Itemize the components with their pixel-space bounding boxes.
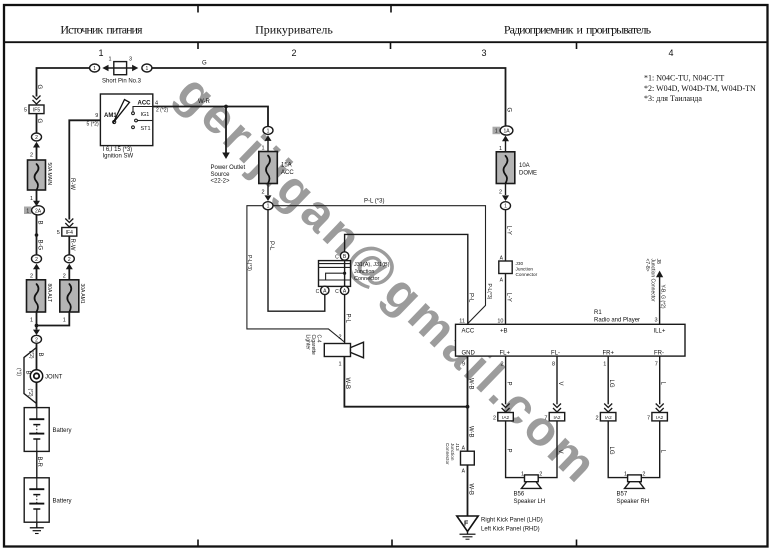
battery ground bbox=[36, 522, 38, 527]
svg-text:LG: LG bbox=[608, 447, 614, 455]
junction node of ALT and AM1 feeds bbox=[35, 324, 39, 328]
fusible link 30A AM1 bbox=[60, 280, 79, 312]
wire oval to 30A AM1 bbox=[68, 268, 70, 280]
svg-text:Left Kick Panel (RHD): Left Kick Panel (RHD) bbox=[481, 527, 540, 533]
connector oval 2 above 30A AM1 bbox=[64, 255, 74, 263]
svg-text:2: 2 bbox=[30, 153, 33, 159]
wire radio GND W-B down bbox=[467, 356, 469, 516]
ignition contact ACC/IG1 bbox=[132, 112, 135, 115]
svg-text:Источник питания: Источник питания bbox=[60, 23, 143, 37]
svg-text:F: F bbox=[464, 521, 469, 528]
svg-text:P: P bbox=[506, 449, 512, 453]
cigarette lighter C4 body bbox=[324, 344, 350, 357]
svg-text:+B: +B bbox=[500, 328, 508, 334]
J31 circle B bbox=[340, 252, 348, 260]
svg-text:*3: для Таиланда: *3: для Таиланда bbox=[644, 94, 702, 103]
svg-text:2: 2 bbox=[35, 257, 38, 263]
svg-text:Short Pin No.3: Short Pin No.3 bbox=[102, 79, 142, 85]
wire L-Y to radio +B bbox=[505, 210, 507, 324]
connector oval 2 above joint bbox=[32, 335, 42, 343]
svg-text:P-L: P-L bbox=[268, 241, 274, 251]
svg-text:FL+: FL+ bbox=[500, 350, 511, 356]
svg-text:ACC: ACC bbox=[138, 100, 152, 106]
wire 2A down to oval 2 bbox=[36, 215, 38, 255]
connector oval 1 radio +B feed bbox=[501, 202, 511, 210]
svg-text:G: G bbox=[36, 119, 42, 124]
wire oval2 to joint and battery bbox=[36, 344, 38, 408]
svg-text:7: 7 bbox=[655, 362, 658, 368]
svg-text:80A ALT: 80A ALT bbox=[46, 284, 52, 303]
svg-text:2: 2 bbox=[338, 335, 341, 341]
wire 50A MAIN to fuse oval bbox=[36, 190, 38, 201]
wire FL- V bbox=[556, 356, 558, 404]
connector oval 2 above 80A ALT bbox=[32, 255, 42, 263]
gray tag of fuse 2A bbox=[24, 207, 32, 215]
svg-text:2: 2 bbox=[30, 274, 33, 280]
J31 internal bus lines bbox=[319, 263, 351, 265]
connector oval 1 right of short pin bbox=[142, 64, 152, 72]
wire J31 B to radio ACC bbox=[345, 234, 468, 324]
arrow right at short pin pin3 bbox=[132, 65, 138, 72]
tick top border col1/2 bbox=[197, 5, 199, 13]
tick bottom col2/3 bbox=[391, 540, 393, 547]
tick bottom col1/2 bbox=[197, 540, 199, 547]
arrow left at short pin pin1 bbox=[102, 65, 108, 72]
svg-text:1: 1 bbox=[30, 196, 33, 202]
ignition contact ST1 bbox=[132, 126, 135, 129]
svg-text:1: 1 bbox=[267, 128, 270, 134]
tick header col1/2 bbox=[197, 42, 199, 49]
joint symbol bbox=[30, 370, 42, 382]
svg-text:Connector: Connector bbox=[445, 443, 450, 465]
svg-text:1: 1 bbox=[63, 318, 66, 324]
wire to power outlet bbox=[225, 107, 227, 153]
svg-text:9: 9 bbox=[462, 362, 465, 368]
header separator line bbox=[4, 41, 768, 43]
svg-text:1: 1 bbox=[504, 204, 507, 210]
wire G top bus from short pin left to left column bbox=[37, 68, 90, 97]
junction connector J31 box bbox=[319, 261, 351, 287]
svg-text:2: 2 bbox=[261, 190, 264, 196]
svg-text:R1: R1 bbox=[594, 310, 602, 316]
svg-text:C: C bbox=[316, 289, 320, 295]
svg-text:<7-8>: <7-8> bbox=[644, 259, 650, 272]
svg-text:2: 2 bbox=[35, 337, 38, 343]
wire oval to 80A ALT bbox=[36, 268, 38, 280]
connector IA2 FR+ bbox=[600, 413, 616, 421]
svg-text:J30: J30 bbox=[516, 261, 524, 266]
svg-text:Radio and Player: Radio and Player bbox=[594, 318, 640, 324]
wire P-L(+3) right branch to radio ACC bbox=[273, 206, 485, 324]
svg-text:2: 2 bbox=[596, 416, 599, 422]
svg-text:FR-: FR- bbox=[654, 350, 664, 356]
battery 2 plates bbox=[36, 478, 38, 489]
svg-text:Right Kick Panel (LHD): Right Kick Panel (LHD) bbox=[481, 518, 543, 524]
svg-text:B-R: B-R bbox=[36, 457, 42, 468]
svg-text:Speaker LH: Speaker LH bbox=[514, 499, 546, 505]
chevron into IA2 FL+ bbox=[502, 404, 510, 413]
wire battery link B-R bbox=[36, 451, 38, 477]
short pin SP1 box bbox=[114, 62, 127, 75]
svg-text:Радиоприемник и проигрыватель: Радиоприемник и проигрыватель bbox=[504, 23, 652, 37]
svg-text:Y-B, G (*2): Y-B, G (*2) bbox=[660, 285, 666, 309]
node power outlet tap bbox=[224, 105, 228, 109]
svg-text:Lighter: Lighter bbox=[304, 335, 310, 351]
wire FR- L bbox=[659, 356, 661, 404]
svg-text:2: 2 bbox=[499, 190, 502, 196]
svg-text:1: 1 bbox=[499, 146, 502, 152]
svg-text:1: 1 bbox=[338, 362, 341, 368]
svg-text:1: 1 bbox=[261, 146, 264, 152]
connector oval 2 below IF5 bbox=[32, 133, 42, 141]
svg-text:P-L: P-L bbox=[468, 293, 474, 303]
svg-text:IF5: IF5 bbox=[33, 107, 40, 113]
svg-text:ILL+: ILL+ bbox=[654, 328, 666, 334]
connector oval 1 left of short pin bbox=[90, 64, 100, 72]
svg-text:1: 1 bbox=[267, 204, 270, 210]
svg-text:ACC: ACC bbox=[462, 328, 475, 334]
wire oval to 15A ACC bbox=[267, 140, 269, 152]
ground hatching bbox=[467, 532, 469, 535]
battery 2 box bbox=[24, 478, 49, 522]
svg-text:2: 2 bbox=[500, 362, 503, 368]
ignition lever bbox=[113, 100, 129, 123]
wire arrow to 50A MAIN bbox=[36, 147, 38, 161]
J31 circle A left bbox=[321, 286, 329, 294]
gray tag of fuse 1A bbox=[493, 127, 501, 135]
arrow up into oval above 80A ALT bbox=[33, 264, 40, 270]
svg-text:1: 1 bbox=[98, 48, 103, 58]
splice node on left wire bbox=[35, 233, 39, 237]
arrow up below oval bbox=[265, 135, 272, 141]
svg-text:3: 3 bbox=[129, 57, 132, 63]
cigarette lighter cone bbox=[351, 342, 364, 358]
chevron into fuse IF5 bbox=[33, 96, 41, 105]
svg-text:L-Y: L-Y bbox=[505, 293, 511, 302]
junction connector J13 box bbox=[461, 451, 475, 465]
svg-text:W-B: W-B bbox=[467, 484, 473, 496]
svg-text:IA2: IA2 bbox=[553, 415, 560, 420]
svg-text:C: C bbox=[335, 254, 339, 260]
svg-text:G: G bbox=[36, 85, 42, 90]
tick header col2/3 bbox=[390, 42, 392, 49]
arrow down power outlet bbox=[222, 153, 230, 160]
J31 circle A right bbox=[340, 286, 348, 294]
wire 1A to 10A DOME bbox=[505, 140, 507, 152]
fusible link 80A ALT bbox=[27, 280, 46, 312]
svg-text:Source: Source bbox=[211, 172, 231, 178]
svg-text:V: V bbox=[557, 450, 563, 454]
svg-text:LG: LG bbox=[608, 380, 614, 388]
arrow up to J8 junction connector bbox=[656, 271, 663, 278]
tick bottom col3/4 bbox=[576, 540, 578, 547]
fuse oval 2A bbox=[32, 206, 45, 215]
wire 30A AM1 down to junction bbox=[37, 312, 70, 326]
arrow down into oval bbox=[502, 195, 509, 201]
wire IA2 to speaker LH pin1 bbox=[506, 421, 525, 478]
wire 80A ALT to junction bbox=[36, 312, 38, 330]
arrow down into oval bbox=[265, 195, 272, 201]
svg-text:P: P bbox=[506, 382, 512, 386]
svg-text:2: 2 bbox=[539, 472, 542, 478]
speaker B56 LH cone bbox=[521, 482, 541, 489]
ignition internal ACC line bbox=[133, 107, 153, 112]
svg-text:B-G: B-G bbox=[36, 240, 42, 251]
svg-text:P-L (*3): P-L (*3) bbox=[364, 199, 384, 205]
svg-text:1: 1 bbox=[26, 209, 29, 215]
connector oval 1 above 15A ACC bbox=[263, 126, 273, 134]
svg-text:FR+: FR+ bbox=[603, 350, 615, 356]
svg-text:IF4: IF4 bbox=[66, 230, 73, 236]
svg-text:2 (*2): 2 (*2) bbox=[156, 108, 169, 114]
wire J31 B through box to lighter bbox=[344, 258, 346, 344]
svg-text:7: 7 bbox=[544, 416, 547, 422]
fuse IF5 bbox=[29, 105, 44, 114]
speaker B57 RH body bbox=[628, 475, 642, 482]
svg-text:Прикуриватель: Прикуриватель bbox=[255, 23, 333, 37]
wire IA2 to speaker LH pin2 bbox=[538, 421, 557, 478]
svg-text:I 6,I 15 (*3): I 6,I 15 (*3) bbox=[103, 147, 133, 153]
svg-text:2: 2 bbox=[35, 135, 38, 141]
svg-text:1: 1 bbox=[146, 66, 149, 72]
svg-text:ACC: ACC bbox=[281, 170, 294, 176]
svg-text:1: 1 bbox=[521, 472, 524, 478]
svg-text:1A: 1A bbox=[503, 129, 510, 135]
svg-text:2: 2 bbox=[63, 274, 66, 280]
svg-text:J31(A), J31(B): J31(A), J31(B) bbox=[354, 262, 390, 268]
svg-text:FL-: FL- bbox=[551, 350, 560, 356]
svg-text:*1: N04C-TU, N04C-TT: *1: N04C-TU, N04C-TT bbox=[644, 74, 724, 83]
svg-text:Speaker RH: Speaker RH bbox=[617, 499, 650, 505]
wire AM1 from ignition to IF4 bbox=[69, 120, 100, 219]
svg-text:V: V bbox=[557, 382, 563, 386]
svg-text:2: 2 bbox=[493, 416, 496, 422]
arrow up into oval 2 bbox=[33, 142, 40, 148]
svg-text:3: 3 bbox=[654, 318, 657, 324]
svg-text:1: 1 bbox=[603, 362, 606, 368]
svg-text:Battery: Battery bbox=[53, 499, 72, 505]
svg-text:R-W: R-W bbox=[69, 178, 75, 190]
svg-text:R-W: R-W bbox=[69, 239, 75, 251]
svg-text:1: 1 bbox=[93, 66, 96, 72]
svg-text:1: 1 bbox=[624, 472, 627, 478]
arrow up below 1A bbox=[502, 136, 509, 142]
fuse oval 1A bbox=[500, 126, 513, 135]
ignition internal mid line bbox=[138, 120, 153, 122]
svg-text:4: 4 bbox=[668, 48, 673, 58]
wire ILL+ Y-B bbox=[659, 277, 661, 325]
svg-text:2A: 2A bbox=[35, 208, 42, 214]
svg-text:G: G bbox=[505, 108, 511, 113]
joint bypass wire (+1) bbox=[24, 348, 37, 404]
fuse IF4 bbox=[62, 228, 77, 237]
arrow down into oval 2 bottom bbox=[33, 330, 40, 335]
svg-text:Connector: Connector bbox=[516, 272, 538, 277]
fusible link 50A MAIN bbox=[28, 160, 46, 190]
svg-text:5 (*2): 5 (*2) bbox=[87, 122, 100, 128]
connector oval 1 lighter feed bbox=[263, 202, 273, 210]
svg-text:7: 7 bbox=[647, 416, 650, 422]
wire G top bus from short pin right to right column bbox=[152, 68, 506, 127]
tick header col3/4 bbox=[576, 42, 578, 49]
svg-text:W-B: W-B bbox=[344, 378, 350, 390]
connector IA2 FL- bbox=[549, 413, 565, 421]
svg-text:50A MAIN: 50A MAIN bbox=[46, 163, 52, 186]
wire 15A ACC to oval bbox=[267, 184, 269, 196]
node GND meets lighter ground bbox=[466, 405, 470, 409]
svg-text:B: B bbox=[36, 221, 42, 225]
wire IA2 to speaker RH pin1 bbox=[608, 421, 627, 478]
svg-text:GND: GND bbox=[462, 350, 476, 356]
svg-text:(*2): (*2) bbox=[28, 351, 34, 359]
arrow down into 2A oval bbox=[33, 201, 40, 206]
svg-text:IA2: IA2 bbox=[656, 415, 663, 420]
wire P-L(+3) left branch to lighter bbox=[247, 206, 345, 342]
svg-text:G: G bbox=[202, 61, 207, 67]
wire oval down to junction connector loop bbox=[268, 210, 325, 311]
fuse 10A DOME bbox=[496, 152, 515, 184]
wire ACC feed to lighter column bbox=[153, 107, 268, 127]
svg-text:(*2): (*2) bbox=[27, 389, 33, 397]
wire IF4 to oval bbox=[68, 236, 70, 255]
svg-text:B56: B56 bbox=[514, 492, 525, 498]
tick top border col2/3 bbox=[390, 5, 392, 13]
svg-text:IA2: IA2 bbox=[502, 415, 509, 420]
svg-text:3: 3 bbox=[481, 48, 486, 58]
svg-text:5: 5 bbox=[57, 230, 60, 236]
connector IA2 FL+ bbox=[498, 413, 514, 421]
svg-text:1: 1 bbox=[495, 129, 498, 135]
svg-text:(*1): (*1) bbox=[15, 368, 21, 376]
svg-text:P-L(*3): P-L(*3) bbox=[246, 255, 252, 271]
svg-text:2: 2 bbox=[291, 48, 296, 58]
svg-text:W-B: W-B bbox=[467, 426, 473, 438]
svg-text:IG1: IG1 bbox=[141, 112, 150, 118]
svg-text:DOME: DOME bbox=[519, 170, 537, 176]
svg-text:8: 8 bbox=[552, 362, 555, 368]
svg-text:1: 1 bbox=[30, 318, 33, 324]
svg-text:IA2: IA2 bbox=[605, 415, 612, 420]
svg-text:<22-2>: <22-2> bbox=[211, 179, 231, 185]
ignition contact mid bbox=[135, 119, 138, 122]
wire FR+ LG bbox=[607, 356, 609, 404]
svg-text:Junction: Junction bbox=[354, 269, 375, 275]
junction connector J30 box bbox=[499, 261, 512, 274]
connector IA2 FR- bbox=[652, 413, 668, 421]
ignition switch SW1 box bbox=[100, 94, 152, 146]
wire through short pin bbox=[107, 67, 135, 69]
wire through J31 box bbox=[344, 261, 346, 287]
svg-text:W-B: W-B bbox=[467, 378, 473, 390]
svg-text:Power Outlet: Power Outlet bbox=[211, 165, 246, 171]
chevron into fuse IF4 bbox=[65, 219, 73, 228]
svg-text:ST1: ST1 bbox=[141, 126, 151, 132]
ground triangle F bbox=[457, 516, 478, 532]
svg-text:Battery: Battery bbox=[53, 428, 72, 434]
svg-text:P-L(*3): P-L(*3) bbox=[486, 284, 492, 300]
chevron into IA2 FR- bbox=[656, 404, 664, 413]
wire IA2 to speaker RH pin2 bbox=[641, 421, 659, 478]
svg-text:C: C bbox=[335, 289, 339, 295]
J31 internal node bbox=[343, 272, 346, 275]
svg-text:15A: 15A bbox=[281, 163, 292, 169]
svg-text:B: B bbox=[37, 353, 43, 357]
svg-text:B: B bbox=[24, 371, 30, 375]
svg-text:2: 2 bbox=[642, 472, 645, 478]
chevron into IA2 FL- bbox=[553, 404, 561, 413]
svg-text:*2: W04D, W04D-TM, W04D-TN: *2: W04D, W04D-TM, W04D-TN bbox=[644, 84, 756, 93]
svg-text:Junction: Junction bbox=[516, 267, 534, 272]
svg-text:Connector: Connector bbox=[354, 276, 380, 282]
svg-text:10A: 10A bbox=[519, 163, 530, 169]
svg-text:1: 1 bbox=[108, 57, 111, 63]
speaker B57 RH cone bbox=[625, 482, 645, 489]
battery 1 plates bbox=[36, 408, 38, 419]
svg-text:W-R: W-R bbox=[198, 99, 211, 105]
svg-text:JOINT: JOINT bbox=[45, 375, 63, 381]
fuse 15A ACC bbox=[259, 152, 278, 184]
wire lighter ground W-B bbox=[344, 357, 467, 407]
ignition lever pivot bbox=[113, 120, 116, 123]
svg-text:P-L: P-L bbox=[344, 314, 350, 324]
speaker B56 LH body bbox=[525, 475, 539, 482]
chevron into IA2 FR+ bbox=[604, 404, 612, 413]
svg-text:2: 2 bbox=[68, 257, 71, 263]
svg-text:9: 9 bbox=[95, 113, 98, 119]
svg-text:5: 5 bbox=[24, 108, 27, 114]
svg-text:L-Y: L-Y bbox=[505, 226, 511, 235]
radio R1 box bbox=[456, 324, 686, 356]
wire IF5 to oval bbox=[36, 114, 38, 133]
arrow up into oval above 30A AM1 bbox=[66, 264, 73, 270]
wire FL+ P bbox=[505, 356, 507, 404]
wire DOME to oval bbox=[505, 184, 507, 196]
svg-text:30A AM1: 30A AM1 bbox=[79, 284, 85, 304]
svg-text:Ignition SW: Ignition SW bbox=[103, 154, 134, 160]
svg-text:B57: B57 bbox=[617, 492, 628, 498]
battery 1 box bbox=[24, 408, 49, 452]
